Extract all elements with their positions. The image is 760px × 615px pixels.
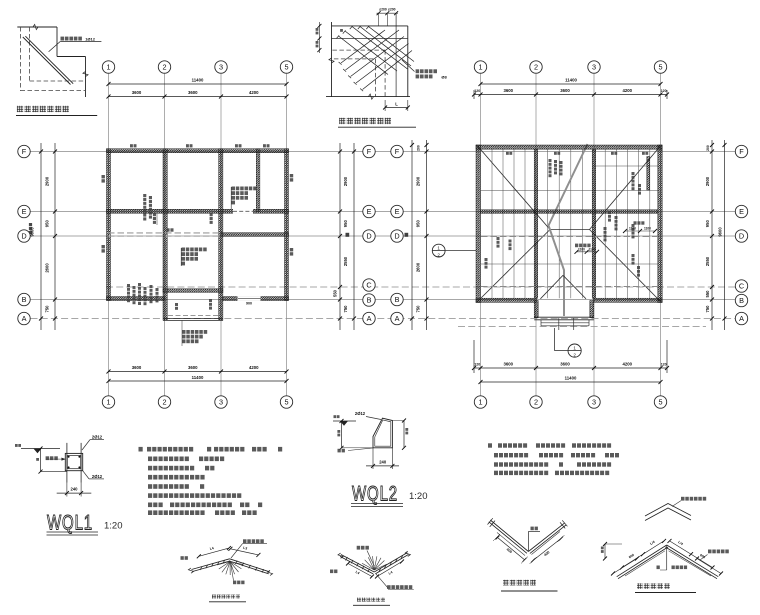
right plan bottom segment dimension line <box>474 367 667 369</box>
detail 1 slab top edge line <box>17 26 57 28</box>
svg-text:WQL1: WQL1 <box>47 510 93 534</box>
svg-text:240: 240 <box>71 487 79 492</box>
detail 2 tiny mark in upper band <box>340 29 343 32</box>
section mark circle 2 with leader (below right plan) <box>568 344 581 357</box>
svg-text:120: 120 <box>661 363 667 367</box>
lower fold detail: extension ticks at dimension ends <box>493 534 500 541</box>
general notes list, 8 lines <box>139 447 143 452</box>
svg-text:B: B <box>22 295 27 304</box>
svg-text:3600: 3600 <box>560 362 570 367</box>
left plan wall along B from column 1 to 2 <box>107 297 165 301</box>
left plan wall column 2 (internal, F to porch) <box>163 149 167 321</box>
right plan right vertical dimension lines <box>711 140 713 330</box>
svg-text:≤200: ≤200 <box>388 8 396 12</box>
WQL1 bottom rebar label 2d12 <box>83 471 89 479</box>
left plan wall column 3 (internal, F to porch) <box>219 149 223 321</box>
left plan rotated wall label WQ2 (left wall lower) <box>102 245 105 253</box>
svg-text:F: F <box>739 147 744 156</box>
svg-text:9600: 9600 <box>718 227 723 237</box>
svg-text:4200: 4200 <box>623 88 633 93</box>
svg-text:5: 5 <box>284 63 288 72</box>
left plan thin line below porch <box>181 321 183 347</box>
left plan text block below porch <box>182 330 207 334</box>
svg-text:2: 2 <box>534 398 538 407</box>
svg-text:1: 1 <box>478 398 482 407</box>
WQL1 top rebar label 2d12 <box>82 440 90 450</box>
left plan porch internal labels <box>175 303 178 310</box>
detail 2 leader and two-line label <box>402 60 415 72</box>
svg-text:D: D <box>21 232 26 241</box>
left plan left letter circles F E D B A <box>18 145 30 157</box>
svg-text:2Ø12: 2Ø12 <box>92 435 103 440</box>
svg-text:A: A <box>367 314 372 323</box>
grid columns right plan <box>480 74 482 396</box>
svg-text:5: 5 <box>658 398 662 407</box>
lower fold detail: right slab band <box>528 523 564 552</box>
svg-text:B: B <box>739 296 744 305</box>
right plan fold (section) thick polyline <box>549 144 588 316</box>
left plan wall column 1 (left outer wall) <box>107 149 111 301</box>
svg-text:3: 3 <box>219 63 223 72</box>
upper fold detail: outer dimension right slope <box>697 559 721 574</box>
svg-text:2600: 2600 <box>416 262 421 272</box>
svg-text:C: C <box>366 281 371 290</box>
lower fold detail: left slab band <box>490 520 528 552</box>
WQL2 title double underline <box>351 502 403 504</box>
valley node detail: fan of radiating lines upward <box>374 564 387 570</box>
svg-text:1100: 1100 <box>578 247 585 251</box>
left plan porch bottom edge <box>163 317 223 319</box>
right plan porch bottom edges and steps <box>534 316 594 318</box>
svg-text:D: D <box>394 232 399 241</box>
right plan horizontal roof line y=166 (right part) <box>594 165 658 167</box>
fold node detail: fan of radiating lines <box>217 562 230 566</box>
svg-text:3600: 3600 <box>560 88 570 93</box>
right plan wall corner mitre diagonals <box>476 145 480 149</box>
right plan horizontal roof line y=190.5 <box>481 190 658 192</box>
left plan top grid circles 1 2 3 5 <box>102 61 114 73</box>
left plan dense label cluster near B/column2 <box>127 284 130 302</box>
left plan wall along D from column 3 to 5 <box>221 233 289 237</box>
left plan bottom grid circles 1 2 3 5 <box>102 396 114 408</box>
svg-text:950: 950 <box>45 220 50 228</box>
svg-text:4200: 4200 <box>249 365 259 370</box>
WQL1 level mark <box>21 448 60 450</box>
svg-text:2Ø12: 2Ø12 <box>92 474 103 479</box>
svg-text:3600: 3600 <box>132 90 142 95</box>
grid columns left plan <box>108 74 110 396</box>
detail 2 corner diagonal bars backslash direction <box>352 27 408 70</box>
left plan wall along B from column 3 to 5 <box>223 297 289 301</box>
svg-text:Ø8: Ø8 <box>441 74 447 79</box>
left plan rotated label near column 2 below E <box>153 213 156 224</box>
svg-text:1:20: 1:20 <box>104 521 123 532</box>
right plan dashed line C <box>481 286 658 288</box>
svg-text:950: 950 <box>705 220 710 228</box>
WQL2 section shape (inner) <box>375 420 391 446</box>
right plan hatched band along E <box>480 210 657 214</box>
left plan rotated text pair near column 2 <box>143 194 146 221</box>
grid line C (dashed) <box>106 286 735 288</box>
svg-text:1: 1 <box>106 398 110 407</box>
svg-text:200: 200 <box>417 145 421 151</box>
svg-text:A: A <box>22 314 27 323</box>
lower fold detail: left dimension line <box>498 538 525 560</box>
svg-text:2550: 2550 <box>343 256 348 266</box>
WQL1 stirrup square (double) <box>65 453 82 470</box>
right plan left outer wall <box>476 145 480 303</box>
grid line F <box>31 151 736 153</box>
svg-text:550: 550 <box>333 289 338 297</box>
right plan rafter lines (thin verticals) <box>491 149 493 298</box>
WQL1 wall section verticals <box>66 443 68 483</box>
WQL2 section shape (outer) <box>373 418 392 448</box>
svg-text:4200: 4200 <box>249 90 259 95</box>
left plan slab text block center W5 <box>182 248 207 252</box>
right plan horizontal roof line y=264 <box>481 263 658 265</box>
svg-text:1: 1 <box>573 345 576 350</box>
svg-text:WQL2: WQL2 <box>352 481 398 505</box>
svg-text:240: 240 <box>379 460 387 465</box>
svg-text:2900: 2900 <box>45 176 50 186</box>
detail 2 corner diagonal bars slash direction <box>346 30 400 70</box>
svg-text:1100: 1100 <box>629 227 636 231</box>
left plan top segment dimension line <box>109 96 287 98</box>
left plan dashed beam along D from column 1 to 3 <box>108 232 221 234</box>
svg-text:1100: 1100 <box>589 247 596 251</box>
svg-text:F: F <box>395 147 400 156</box>
svg-text:550: 550 <box>705 290 710 298</box>
svg-text:120: 120 <box>474 363 480 367</box>
grid line E <box>31 211 736 213</box>
right plan left vertical dimension lines <box>411 140 413 330</box>
svg-text:F: F <box>367 147 372 156</box>
svg-text:≤200: ≤200 <box>379 8 387 12</box>
svg-text:3: 3 <box>592 398 596 407</box>
WQL1 rebar label with arrow <box>46 456 58 460</box>
detail 2 dashed inner lines <box>332 49 385 51</box>
svg-text:3600: 3600 <box>504 362 514 367</box>
detail 1 diagonal reinforcement bar (double line) <box>23 37 71 85</box>
right plan dashed line D <box>481 236 658 238</box>
svg-text:1: 1 <box>437 245 440 250</box>
valley node detail: left slab band <box>341 555 374 573</box>
left plan slab text block upper right W6 <box>232 187 257 191</box>
svg-text:900: 900 <box>246 302 252 306</box>
right plan porch walls <box>534 301 538 318</box>
svg-text:2: 2 <box>534 63 538 72</box>
left plan rotated wall label right wall lower <box>290 248 293 256</box>
grid line D <box>31 235 736 237</box>
left plan bottom segment dimension line <box>109 371 287 373</box>
lower fold detail: right dimension line <box>533 539 561 561</box>
left plan wall along E <box>107 209 289 213</box>
svg-text:1: 1 <box>106 63 110 72</box>
svg-text:11400: 11400 <box>565 78 577 83</box>
fold node detail: leader to top label <box>231 544 243 558</box>
svg-text:5: 5 <box>284 398 288 407</box>
svg-text:1100: 1100 <box>644 227 651 231</box>
lower fold detail: slab end ticks <box>488 518 493 524</box>
WQL2 bottom-left label <box>338 449 345 453</box>
valley node detail: right slab band <box>374 553 407 572</box>
upper fold detail: main peak right band <box>667 545 719 577</box>
WQL1 big title text <box>47 510 93 534</box>
svg-text:D: D <box>739 232 744 241</box>
left plan bottom total dimension line <box>109 380 287 382</box>
fold node detail: slab end break marks <box>188 568 193 573</box>
detail 2 right edge vertical <box>407 26 409 97</box>
upper fold detail: main peak left band <box>617 545 667 577</box>
right plan internal hatched wall column 3 <box>592 149 596 298</box>
auxiliary dashed line below A (right side) <box>458 326 706 328</box>
left plan right vertical dimension lines <box>339 143 341 330</box>
detail 1 leader and label 1d12 <box>49 42 61 52</box>
upper fold detail: chevron label with leader <box>672 501 681 507</box>
right plan wall along B left segment <box>476 298 537 302</box>
upper fold detail title <box>637 583 670 589</box>
svg-text:2600: 2600 <box>45 263 50 273</box>
svg-text:B: B <box>395 295 400 304</box>
left plan rotated label below E near column 3 <box>210 213 213 224</box>
detail 2 slab edge horizontals <box>332 25 408 27</box>
fold node detail: bottom label with leader <box>231 565 234 581</box>
detail 2 top small dimension line <box>377 12 399 14</box>
detail 2 bottom edge line <box>326 96 410 98</box>
svg-text:3600: 3600 <box>188 365 198 370</box>
svg-text:A: A <box>395 314 400 323</box>
grid line B <box>31 299 736 301</box>
svg-text:1Ø12: 1Ø12 <box>85 37 96 42</box>
right plan top total dimension line <box>481 83 661 85</box>
svg-text:3: 3 <box>219 398 223 407</box>
fold node detail: left label <box>181 556 188 560</box>
right plan wall along B right segment <box>594 298 663 302</box>
valley node detail: top label with leader <box>367 551 374 567</box>
fold node detail: right slab band <box>230 559 270 572</box>
grid line A (dashed) <box>31 318 736 320</box>
svg-text:3600: 3600 <box>188 90 198 95</box>
svg-text:2: 2 <box>162 398 166 407</box>
upper fold detail: dimension line above left slope <box>622 541 664 568</box>
right plan small horizontal label right middle <box>634 221 645 224</box>
svg-text:11400: 11400 <box>192 375 204 380</box>
valley node detail: hatch ticks along slab bands <box>346 557 348 560</box>
WQL1 bottom dimension 240 <box>66 483 68 497</box>
upper fold detail: apex vertical line and bottom labels <box>666 545 668 570</box>
upper fold detail: left vertical dimension 250 <box>604 544 606 559</box>
detail 1 inner dashed boundary <box>29 27 31 81</box>
svg-text:2: 2 <box>573 352 576 357</box>
detail 1 slab corner solid lines <box>56 27 58 57</box>
svg-text:3: 3 <box>592 63 596 72</box>
left plan wall x=258 (internal, F to E) <box>256 149 260 212</box>
left plan small label on D line <box>167 228 174 231</box>
svg-text:4200: 4200 <box>623 362 633 367</box>
svg-text:F: F <box>22 147 27 156</box>
svg-text:2550: 2550 <box>705 256 710 266</box>
svg-text:2: 2 <box>437 252 440 257</box>
upper fold detail: rebar lines inside slabs <box>625 551 665 576</box>
valley node detail: bottom-right label with leader <box>376 574 388 588</box>
svg-text:3600: 3600 <box>132 365 142 370</box>
detail 2 middle vertical line <box>395 13 397 96</box>
right plan short hatched wall x=648 top right <box>647 157 650 191</box>
left plan rotated wall label right wall <box>290 174 293 182</box>
fold node detail title <box>212 595 240 599</box>
svg-text:750: 750 <box>343 305 348 313</box>
svg-text:C: C <box>739 282 744 291</box>
right plan right outer wall <box>658 145 662 303</box>
detail 1 title (cantilever slab inner corner) <box>17 106 69 112</box>
svg-text:750: 750 <box>705 305 710 313</box>
left plan porch wall along C (column 2 to 3) <box>163 289 223 293</box>
dark dimension blob on grid D between plans (left) <box>346 233 350 237</box>
detail 2 title (cantilever slab outer corner) <box>339 118 391 124</box>
roof plan notes list, 4 lines <box>488 443 492 447</box>
upper fold detail: outer dimension left slope <box>613 559 637 574</box>
upper fold detail: top chevron pair <box>645 504 691 517</box>
WQL2 level mark <box>333 420 356 422</box>
upper fold detail: dimension line above right slope <box>670 541 713 568</box>
svg-text:2900: 2900 <box>343 176 348 186</box>
svg-text:11400: 11400 <box>192 78 204 83</box>
svg-text:950: 950 <box>343 220 348 228</box>
svg-text:2900: 2900 <box>705 176 710 186</box>
right plan right letter circles F E D C B A <box>735 145 747 157</box>
left plan right letter circles F E D C B A <box>363 145 375 157</box>
svg-text:D: D <box>366 232 371 241</box>
left plan rotated wall label WQ2 (left wall upper) <box>102 175 105 183</box>
detail 2 short stub verticals from top dimension <box>378 13 380 26</box>
valley node detail: left label <box>330 570 337 574</box>
svg-text:L: L <box>395 101 398 106</box>
right plan top segment dimension line <box>474 94 667 96</box>
left plan wall column 5 (right outer wall) <box>285 149 289 301</box>
svg-text:11400: 11400 <box>565 376 577 381</box>
left plan wall along F (top outer wall) <box>107 149 289 153</box>
fold node detail: dimension line above left slab <box>199 548 229 556</box>
right plan ridge line <box>550 229 590 231</box>
valley node detail: dimension line below left slab <box>348 564 372 577</box>
valley node detail: end break marks <box>338 553 343 558</box>
svg-text:1: 1 <box>478 63 482 72</box>
lower fold detail title <box>503 580 536 586</box>
section mark circle 1 with leader (left of right plan) <box>432 244 445 257</box>
svg-text:A: A <box>739 314 744 323</box>
right plan hip diagonal from top-right corner <box>590 147 661 230</box>
detail 2 left vertical dimension with L/2 labels <box>318 22 320 53</box>
door opening in wall E <box>233 209 253 214</box>
valley node detail title <box>357 598 385 602</box>
svg-text:120: 120 <box>661 89 667 93</box>
right plan porch gable lines <box>540 275 563 299</box>
left plan left vertical dimension lines <box>40 143 42 330</box>
detail 2 bottom dimension with L label <box>385 107 408 109</box>
WQL1 vertical dim left <box>40 449 42 472</box>
svg-text:E: E <box>395 207 400 216</box>
left plan short partition line below E near column 2 <box>156 212 158 225</box>
dark dimension blob on grid D between plans (right) <box>405 233 409 237</box>
lower fold detail: vertical reference at valley with 240 label <box>527 532 529 552</box>
lower fold detail: rebar line inside left slab <box>497 533 525 556</box>
svg-text:120: 120 <box>474 89 480 93</box>
lower fold detail: rebar line inside right slab <box>532 532 561 555</box>
svg-text:2900: 2900 <box>416 176 421 186</box>
right plan hip diagonal from bottom-right corner <box>590 230 661 302</box>
svg-text:B: B <box>367 296 372 305</box>
WQL2 bottom dimension 240 <box>372 448 374 469</box>
svg-text:200: 200 <box>706 145 710 151</box>
valley node detail: dimension line below right slab <box>377 562 402 577</box>
right plan wall along F (top outer wall) <box>476 145 662 149</box>
fold node detail: dimension line above right slab <box>230 549 258 555</box>
svg-text:950: 950 <box>416 220 421 228</box>
svg-text:2: 2 <box>162 63 166 72</box>
right plan hip diagonal from bottom-left corner <box>478 230 550 302</box>
svg-text:1:20: 1:20 <box>409 491 428 502</box>
right plan hip diagonal from top-left corner <box>478 147 550 230</box>
WQL2 right vertical dim <box>403 420 405 448</box>
right plan internal hatched wall column 2 <box>534 149 538 298</box>
svg-text:E: E <box>367 207 372 216</box>
upper fold detail: right label with leader <box>700 555 708 561</box>
fold node detail: left slab band <box>192 559 230 570</box>
WQL2 big title text <box>352 481 398 505</box>
right plan center level label 1.800 <box>575 244 591 248</box>
door opening in wall B <box>238 296 261 301</box>
svg-text:2Ø12: 2Ø12 <box>355 411 366 416</box>
left plan wall labels above F <box>130 144 137 147</box>
right plan rotated rebar labels <box>549 159 552 177</box>
detail 1 outer dashed boundary <box>20 27 22 91</box>
svg-text:3600: 3600 <box>504 88 514 93</box>
left plan top total dimension line <box>109 83 287 85</box>
svg-text:E: E <box>739 207 744 216</box>
right plan wall labels below F <box>506 152 512 155</box>
WQL1 title double underline <box>47 531 99 533</box>
right plan bottom total dimension line <box>481 381 661 383</box>
svg-text:750: 750 <box>45 305 50 313</box>
svg-text:E: E <box>22 207 27 216</box>
right plan left letter circles F E D B A <box>391 145 403 157</box>
right plan bottom grid circles 1 2 3 5 <box>474 396 486 408</box>
WQL2 left vertical dim <box>341 421 343 448</box>
right plan top grid circles 1 2 3 5 <box>474 61 486 73</box>
detail 2 left edge vertical <box>331 22 333 97</box>
fold node detail: hatch ticks along slab bands <box>200 567 202 570</box>
svg-text:5: 5 <box>658 63 662 72</box>
svg-text:750: 750 <box>416 305 421 313</box>
